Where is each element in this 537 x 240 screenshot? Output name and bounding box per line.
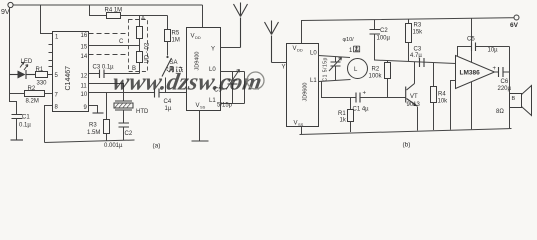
svg-text:UD - 02: UD - 02 — [145, 42, 151, 63]
ground (U2 VSS) — [192, 111, 209, 142]
svg-text:1µ: 1µ — [165, 106, 172, 112]
svg-text:10k: 10k — [438, 99, 449, 105]
wire ground pin LM386 — [471, 82, 473, 130]
svg-text:R1: R1 — [338, 111, 346, 117]
svg-text:R5: R5 — [172, 31, 180, 37]
capacitor C1 4u — [353, 91, 406, 113]
svg-text:V: V — [196, 103, 200, 109]
svg-text:+: + — [493, 66, 497, 72]
svg-text:HTD: HTD — [136, 109, 149, 115]
wire pin 8 to bottom rail — [45, 106, 53, 143]
svg-text:C5: C5 — [467, 37, 475, 43]
resistor R3 1.5M — [87, 93, 110, 142]
svg-text:C14467: C14467 — [65, 66, 72, 91]
wire L0 (b) — [319, 56, 351, 58]
capacitor C3 0.1u — [89, 65, 140, 79]
IC U2 JD9400 — [187, 28, 221, 111]
svg-text:0.1µ: 0.1µ — [19, 123, 31, 129]
wire loop leg — [244, 72, 246, 104]
svg-text:C4: C4 — [164, 99, 172, 105]
wire pin Y to antenna — [221, 47, 241, 49]
transistor VT 9013 — [406, 62, 421, 131]
antenna (b) — [265, 21, 279, 63]
svg-text:R2: R2 — [28, 86, 36, 92]
svg-text:R2: R2 — [372, 67, 380, 73]
svg-text:Y: Y — [282, 65, 286, 71]
svg-text:16: 16 — [81, 33, 88, 39]
resonator HTD — [114, 101, 149, 115]
svg-text:V: V — [293, 46, 297, 52]
capacitor C3 4.7u — [410, 47, 424, 68]
wire inverting input to ground — [451, 81, 456, 130]
pin stubs U1 left — [49, 45, 53, 67]
resistor R2 100k — [369, 61, 391, 98]
wire left rail — [10, 8, 17, 114]
svg-text:SS: SS — [298, 122, 304, 127]
terminal 9V — [1, 2, 13, 16]
IC U1 C14467 — [53, 32, 89, 112]
svg-text:SA: SA — [170, 60, 178, 66]
watermark circle — [247, 72, 264, 89]
wire top rail (a) — [13, 4, 202, 6]
svg-text:0.001µ: 0.001µ — [104, 143, 123, 149]
wire audio tap from L1 — [322, 82, 357, 98]
trimmer C5 5/15p — [214, 70, 240, 109]
wire power pin LM386 — [471, 18, 473, 62]
svg-text:C3: C3 — [414, 47, 422, 53]
svg-text:V: V — [294, 121, 298, 127]
watermark www.dzsw.com — [111, 69, 264, 96]
module UD-02 (dashed box) — [129, 20, 151, 72]
antenna (a) — [234, 3, 248, 48]
resistor R5 1M — [165, 16, 180, 56]
speaker B 8ohm — [496, 86, 532, 129]
svg-text:15k: 15k — [413, 30, 424, 36]
ground (pin 9) — [89, 106, 104, 114]
resistor R4 10k — [431, 63, 449, 130]
svg-text:10: 10 — [81, 92, 88, 98]
svg-text:φ10/: φ10/ — [343, 37, 355, 43]
svg-text:C1: C1 — [22, 115, 30, 121]
svg-text:A: A — [141, 16, 145, 22]
resistor R1 330 — [36, 67, 53, 87]
svg-text:1k: 1k — [340, 118, 347, 124]
ground (C1) — [11, 139, 24, 141]
resistor RA (upper, in UD-02) — [137, 16, 143, 39]
svg-text:Y: Y — [211, 47, 215, 53]
LED — [10, 59, 36, 79]
svg-text:100µ: 100µ — [377, 36, 391, 42]
capacitor C2 100u — [370, 20, 391, 61]
trimmer C1 5/15p — [323, 56, 342, 81]
svg-text:V: V — [191, 34, 195, 40]
coil L — [343, 37, 368, 79]
svg-text:6V: 6V — [510, 22, 519, 29]
svg-text:15: 15 — [81, 45, 88, 51]
resistor R4 1M — [90, 5, 168, 19]
svg-text:C2: C2 — [380, 28, 388, 34]
svg-text:DD: DD — [297, 48, 303, 53]
svg-text:C: C — [119, 39, 124, 45]
svg-text:C3 0.1µ: C3 0.1µ — [93, 65, 115, 71]
wire bottom rail (b) — [300, 129, 512, 135]
svg-text:10µ: 10µ — [488, 48, 499, 54]
wire L0 loop — [221, 71, 245, 73]
svg-text:DD: DD — [195, 35, 201, 40]
wire pin 15 / node C — [89, 39, 140, 46]
wire VDD riser U3 / top rail (b) — [302, 18, 515, 44]
svg-text:(b): (b) — [403, 142, 411, 149]
svg-text:L0: L0 — [310, 51, 317, 57]
op-amp LM386 — [456, 56, 495, 89]
svg-text:L1: L1 — [209, 98, 216, 104]
wire bottom rail (a) — [45, 140, 135, 143]
terminal 6V — [510, 15, 519, 29]
svg-text:12: 12 — [81, 74, 88, 80]
svg-text:+: + — [363, 91, 367, 97]
svg-text:L1: L1 — [310, 78, 317, 84]
wire pin 14 (dashed) — [89, 54, 129, 56]
wire 9V to pin 1 — [41, 5, 53, 34]
capacitor C1 0.1u — [12, 115, 32, 140]
IC U3 JD9600 — [282, 44, 319, 128]
svg-text:R3: R3 — [89, 123, 97, 129]
wire L1 (b) — [319, 80, 351, 82]
svg-text:R1: R1 — [36, 67, 44, 73]
svg-text:4.7µ: 4.7µ — [410, 53, 422, 59]
wire L1 loop — [221, 103, 245, 105]
svg-text:LM386: LM386 — [460, 70, 481, 77]
svg-text:330: 330 — [37, 81, 48, 87]
svg-text:9V: 9V — [1, 9, 10, 16]
wire antenna to Y — [272, 62, 287, 64]
svg-text:C6: C6 — [501, 79, 509, 85]
capacitor C2 0.001u — [119, 110, 133, 141]
svg-text:C2: C2 — [125, 131, 133, 137]
svg-text:C1 5/15p: C1 5/15p — [323, 57, 329, 81]
capacitor C4 1u — [155, 89, 187, 113]
svg-text:JD9400: JD9400 — [195, 52, 201, 71]
svg-text:R4: R4 — [438, 92, 446, 98]
svg-text:R4 1M: R4 1M — [105, 8, 123, 14]
capacitor C6 220u — [493, 66, 512, 92]
resistor R3 15k — [406, 19, 424, 61]
svg-text:B: B — [512, 96, 516, 102]
svg-text:VT: VT — [410, 94, 418, 100]
wire pin 11 to HTD — [89, 84, 124, 102]
resistor RB (lower, in UD-02) — [137, 39, 143, 74]
svg-text:LED: LED — [21, 59, 33, 65]
svg-text:5/15p: 5/15p — [217, 103, 233, 109]
svg-text:(a): (a) — [153, 143, 161, 150]
svg-text:www.dzsw.com: www.dzsw.com — [111, 69, 264, 96]
svg-text:R3: R3 — [414, 23, 422, 29]
wire pin 10 — [89, 92, 155, 94]
wire VSS riser U3 — [301, 127, 303, 135]
wire collector node — [375, 60, 456, 64]
svg-text:1.5M: 1.5M — [87, 130, 100, 136]
svg-text:100k: 100k — [369, 74, 383, 80]
switch SA (test) — [162, 56, 183, 93]
svg-text:9013: 9013 — [407, 102, 421, 108]
wire VDD riser U2 — [202, 5, 204, 28]
svg-text:11: 11 — [81, 84, 88, 90]
capacitor C5 10u — [458, 37, 510, 57]
svg-text:C1 4µ: C1 4µ — [353, 107, 370, 113]
resistor R2 8.2M — [10, 86, 53, 105]
wire C5/C6 junction riser — [509, 47, 511, 94]
svg-text:1M: 1M — [172, 38, 180, 44]
resistor R1 1k — [338, 98, 354, 133]
svg-text:SS: SS — [200, 105, 206, 110]
wire pin 16 (dashed) — [89, 33, 129, 35]
svg-text:8Ω: 8Ω — [496, 109, 504, 115]
svg-text:8.2M: 8.2M — [26, 99, 39, 105]
svg-text:14: 14 — [81, 54, 88, 60]
svg-text:JD9600: JD9600 — [303, 83, 309, 102]
